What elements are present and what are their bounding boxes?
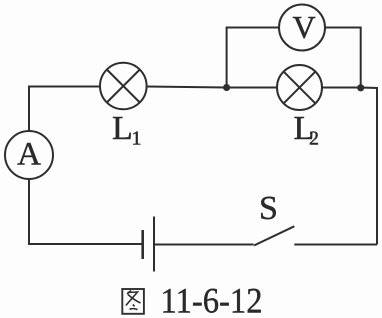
switch S blade bbox=[254, 226, 294, 245]
wire bottom left: battery to left corner and up to ammeter bbox=[29, 179, 143, 244]
svg-text:L: L bbox=[112, 110, 133, 147]
wire from L1 to left node bbox=[147, 87, 227, 88]
caption: character 图 drawn as strokes bbox=[122, 289, 144, 314]
wire from V to right branch corner and down to right node bbox=[325, 28, 361, 88]
wire from L2 to right node bbox=[322, 87, 361, 89]
label L1 bbox=[112, 110, 142, 150]
svg-text:2: 2 bbox=[309, 128, 319, 150]
label L2 bbox=[294, 110, 320, 150]
svg-text:V: V bbox=[292, 9, 315, 45]
svg-text:1: 1 bbox=[132, 128, 142, 150]
wire top-left: from left corner to lamp L1 bbox=[29, 87, 100, 132]
wire bottom right: corner to switch right contact bbox=[294, 244, 377, 246]
wire right edge: node to corner, down to bottom-right corner bbox=[361, 88, 377, 245]
battery: short plate (negative) bbox=[141, 230, 144, 259]
battery: long plate (positive) bbox=[153, 217, 155, 272]
voltmeter V bbox=[279, 5, 325, 51]
node: left junction dot bbox=[223, 84, 230, 91]
lamp L2 bbox=[277, 65, 322, 110]
lamp L1 bbox=[100, 63, 147, 110]
wire left branch vertical up to voltmeter row bbox=[227, 28, 279, 88]
svg-text:11-6-12: 11-6-12 bbox=[161, 281, 263, 318]
ammeter A bbox=[5, 131, 53, 179]
svg-text:S: S bbox=[259, 190, 278, 227]
svg-text:A: A bbox=[17, 137, 41, 173]
node: right junction dot bbox=[357, 84, 364, 91]
wire from left node to lamp L2 bbox=[227, 87, 277, 89]
wire bottom: switch left contact to battery bbox=[154, 244, 254, 246]
